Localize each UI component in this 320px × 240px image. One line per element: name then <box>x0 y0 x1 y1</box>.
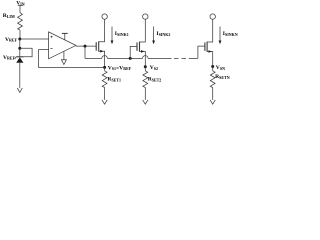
transistor QN drain lead <box>207 19 213 42</box>
node gate bus junction dot <box>84 45 87 48</box>
transistor Q1 gate bar <box>95 42 97 51</box>
annotation ISINK2 current arrow <box>153 27 155 42</box>
power negative-rail arrow N <box>210 100 215 104</box>
svg-text:RLIM: RLIM <box>3 13 15 19</box>
power negative-rail arrow 1 <box>102 100 107 104</box>
terminal QN drain circle <box>210 14 215 19</box>
wire gate bus dashed continuation <box>174 57 179 59</box>
wire gate bus drop <box>84 46 86 58</box>
svg-text:RSET2: RSET2 <box>148 77 162 83</box>
wire RLIM to VREF node <box>19 30 21 39</box>
annotation ISINK1 current arrow <box>111 27 113 42</box>
svg-text:VREF: VREF <box>3 55 16 61</box>
transistor Q1 source arrow <box>100 50 103 53</box>
transistor Q2 source arrow <box>141 50 144 53</box>
wire Q2 gate riser <box>130 46 137 58</box>
transistor Q2 source lead <box>140 51 146 66</box>
terminal Q2 drain circle <box>143 14 148 19</box>
power negative-rail arrow left <box>17 88 22 93</box>
svg-text:VS2: VS2 <box>150 65 158 71</box>
wire VREF node to op-amp + input <box>20 38 49 40</box>
svg-text:RSETN: RSETN <box>215 74 230 80</box>
node VIN terminal bar <box>18 4 24 6</box>
node VS2 dot <box>144 65 147 68</box>
wire VREF node down to zener <box>19 39 21 57</box>
svg-text:ISINK1: ISINK1 <box>115 31 129 37</box>
wire op-amp output to Q1 gate <box>76 45 96 47</box>
svg-text:VSN: VSN <box>216 65 225 71</box>
wire hop over Q1 source <box>102 56 108 59</box>
transistor QN channel bar <box>206 42 208 52</box>
transistor Q2 channel bar <box>139 42 141 52</box>
resistor RLIM <box>18 13 23 30</box>
diode zener VREF triangle <box>16 57 23 63</box>
transistor Q2 drain lead <box>140 19 146 42</box>
wire QN gate riser <box>198 46 205 58</box>
op-amp U1 triangle <box>49 32 76 59</box>
transistor Q2 gate bar <box>136 42 138 51</box>
resistor RSETN <box>210 71 215 88</box>
node VREF junction dot <box>18 38 21 41</box>
svg-text:VS1=VREF: VS1=VREF <box>108 65 132 71</box>
transistor Q1 channel bar <box>98 41 100 51</box>
transistor QN gate bar <box>204 42 206 51</box>
wire gate bus segment E <box>189 57 198 59</box>
svg-text:VREF: VREF <box>5 37 18 43</box>
wire hop over Q2 source <box>143 56 149 59</box>
svg-text:RSET1: RSET1 <box>107 77 121 83</box>
op-amp plus input mark <box>51 36 53 38</box>
power negative-rail arrow 2 <box>143 100 148 104</box>
wire gate bus segment C <box>130 57 142 59</box>
terminal Q1 drain circle <box>102 14 107 19</box>
transistor QN source arrow <box>209 50 212 53</box>
diode zener VREF cathode bar <box>16 56 24 58</box>
transistor QN source lead <box>207 52 213 67</box>
power op-amp positive supply tee <box>64 33 66 39</box>
node Q2 gate junction dot <box>129 57 132 60</box>
wire gate bus segment B <box>107 57 130 59</box>
op-amp minus input mark <box>50 48 52 50</box>
wire zener reference loop <box>20 48 32 57</box>
wire gate bus segment D <box>148 57 171 59</box>
svg-text:ISINKN: ISINKN <box>223 31 238 37</box>
annotation ISINKN current arrow <box>219 27 221 42</box>
node zener cathode junction dot <box>18 47 21 50</box>
svg-text:VIN: VIN <box>16 1 25 7</box>
resistor RSET1 <box>102 71 107 88</box>
transistor Q1 drain lead <box>99 19 105 42</box>
wire VIN to RLIM <box>19 5 21 12</box>
ground op-amp negative pin <box>63 51 65 59</box>
svg-text:ISINK2: ISINK2 <box>156 31 170 37</box>
node VSN dot <box>211 65 214 68</box>
node VS1 dot <box>103 66 106 69</box>
resistor RSET2 <box>143 71 148 88</box>
transistor Q1 source lead <box>99 51 105 67</box>
wire zener anode down <box>19 62 21 88</box>
wire gate bus segment A <box>85 57 102 59</box>
wire op-amp inverting feedback to VS1 <box>39 50 104 68</box>
